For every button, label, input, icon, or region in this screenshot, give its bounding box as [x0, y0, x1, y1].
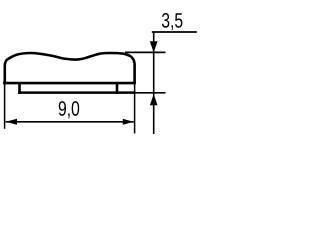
top extension line for 3,5 [125, 51, 166, 53]
left arrowhead of 9,0 [6, 119, 17, 125]
right extension line for 9,0 [134, 84, 136, 134]
up arrowhead of 3,5 [150, 94, 158, 105]
right step bar of base [116, 83, 119, 94]
down arrowhead of 3,5 [150, 41, 158, 52]
left step bar of base [18, 83, 21, 94]
label 3,5 [162, 13, 183, 30]
wavy top outline of soap body with right edge [5, 53, 135, 84]
flange top horizontal line [3, 82, 136, 85]
right arrowhead of 9,0 [123, 119, 134, 125]
base bottom line [18, 91, 135, 94]
left extension line for 9,0 [4, 84, 6, 129]
dimension line 3,5 vertical tail [153, 32, 155, 134]
label 9,0 [59, 101, 79, 118]
dimension line 9,0 [6, 121, 134, 123]
leader line under 3,5 text [152, 31, 197, 33]
bottom extension line for 3,5 [136, 92, 166, 94]
